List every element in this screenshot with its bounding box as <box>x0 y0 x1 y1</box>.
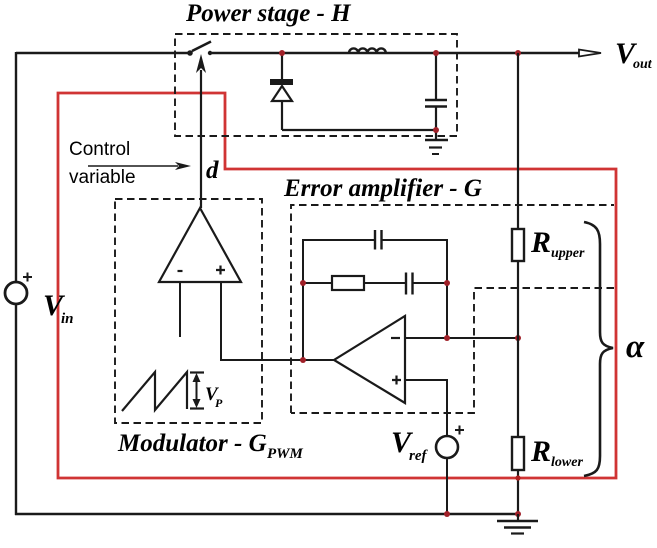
node capacitor bottom <box>433 127 439 133</box>
wire bottom rail <box>15 513 517 515</box>
label Control variable <box>69 139 136 188</box>
wire compensation left rail <box>302 239 304 360</box>
node divider tap junction <box>515 335 521 341</box>
wire left vertical upper <box>15 52 17 283</box>
label Vp <box>205 384 223 410</box>
inductor L <box>349 48 386 53</box>
node Vref bottom <box>444 511 450 517</box>
svg-text:Error amplifier - G: Error amplifier - G <box>283 175 482 202</box>
label Rlower <box>530 435 583 470</box>
label Rupper <box>530 226 585 261</box>
ground bottom <box>497 514 538 534</box>
label d <box>206 157 219 184</box>
svg-text:P: P <box>215 396 223 410</box>
source Vref <box>436 426 464 459</box>
label Vref <box>391 426 428 464</box>
capacitor C output <box>425 53 447 130</box>
sawtooth waveform <box>122 372 187 411</box>
svg-text:variable: variable <box>69 167 136 188</box>
node error amp output <box>300 357 306 363</box>
resistor Rlower <box>512 437 524 470</box>
resistor R1 mid feedback <box>303 276 406 290</box>
label Power stage - H <box>185 0 352 27</box>
wire compensation right rail <box>446 239 448 338</box>
capacitor C1 top feedback <box>303 230 447 250</box>
svg-text:PWM: PWM <box>267 446 304 462</box>
svg-text:lower: lower <box>551 455 583 470</box>
diode D <box>270 53 293 130</box>
node capacitor top <box>433 50 439 56</box>
wire left vertical lower <box>15 304 17 515</box>
label Modulator - GPWM <box>117 430 304 462</box>
node divider tap top <box>515 50 521 56</box>
node inverting input junction <box>444 335 450 341</box>
modulator dashed box <box>115 199 262 423</box>
red feedback loop highlight wire <box>58 93 616 478</box>
svg-text:ref: ref <box>409 448 428 464</box>
wire op-amp non-inverting input <box>405 380 447 436</box>
svg-text:Power stage - H: Power stage - H <box>185 0 352 27</box>
node diode top <box>279 50 285 56</box>
comparator U1 <box>159 208 241 282</box>
svg-text:d: d <box>206 157 219 184</box>
wire top rail right <box>209 52 579 54</box>
svg-text:R: R <box>530 435 551 468</box>
brace alpha <box>584 222 613 476</box>
svg-text:in: in <box>61 311 74 327</box>
label Vout <box>615 37 653 72</box>
op-amp U2 <box>334 316 405 403</box>
capacitor C2 mid feedback <box>406 273 447 295</box>
wire comparator sawtooth input stub <box>179 282 181 337</box>
Vp measurement arrow <box>190 373 204 409</box>
source Vin <box>5 273 32 305</box>
svg-text:R: R <box>530 226 551 259</box>
power stage dashed box <box>175 34 457 136</box>
control arrow <box>88 162 191 170</box>
control variable d arrow to switch <box>196 54 206 208</box>
wire power stage interior bottom <box>282 129 436 131</box>
wire op-amp inverting input <box>405 337 518 339</box>
node red crossing <box>515 475 520 480</box>
svg-text:out: out <box>633 57 653 72</box>
Vout arrowhead <box>579 50 601 57</box>
svg-text:α: α <box>626 329 645 365</box>
wire divider rail middle <box>517 261 519 437</box>
resistor Rupper <box>512 229 524 261</box>
node feedback mid left <box>300 280 306 286</box>
node divider bottom <box>515 511 521 517</box>
error amplifier dashed outline <box>291 205 614 413</box>
wire top rail left <box>16 52 190 54</box>
svg-text:Control: Control <box>69 139 130 160</box>
wire divider rail lower <box>517 470 519 514</box>
label alpha <box>626 329 645 365</box>
wire divider rail upper <box>517 53 519 229</box>
node feedback mid right <box>444 280 450 286</box>
wire comparator control input from error amp <box>221 282 334 360</box>
svg-text:upper: upper <box>551 246 585 261</box>
switch SW <box>187 42 212 56</box>
label Error amplifier - G <box>283 175 482 202</box>
svg-text:Modulator - G: Modulator - G <box>117 430 267 457</box>
wire Vref to bottom rail <box>446 458 448 514</box>
ground power stage <box>425 130 448 154</box>
label Vin <box>43 289 74 327</box>
